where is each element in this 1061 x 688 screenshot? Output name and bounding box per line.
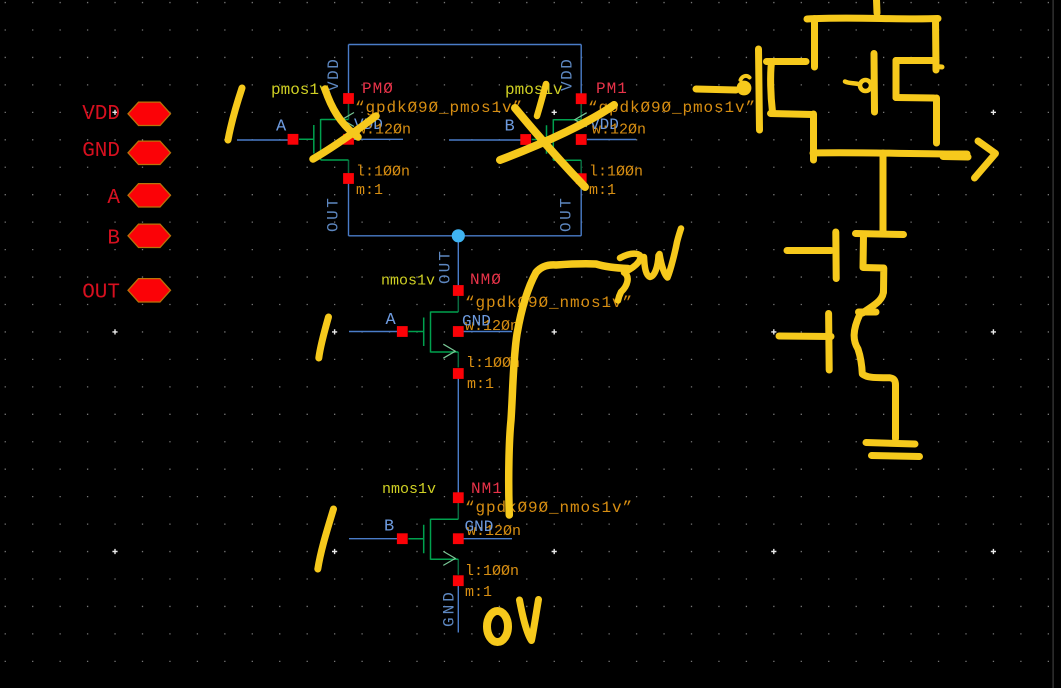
- wire OUT to NM0 drain: [457, 236, 459, 286]
- wire PM0 bulk stub: [354, 138, 403, 140]
- pin hexagon A: [128, 184, 171, 207]
- annotation sketch series kink bar: [859, 309, 877, 316]
- annotation sketch left PMOS drain down-wire: [810, 114, 817, 160]
- annotation sketch right PMOS channel: [893, 61, 900, 98]
- annotation scribble 3V vee: [660, 229, 682, 278]
- pin hexagon OUT: [128, 279, 171, 302]
- svg-text:A: A: [107, 187, 120, 210]
- PM1 source arrow: [575, 113, 587, 127]
- svg-text:m:1: m:1: [465, 584, 492, 601]
- pin hexagon B: [128, 224, 171, 247]
- svg-text:OUT: OUT: [325, 196, 343, 232]
- annotation sketch bubble hook: [741, 76, 750, 80]
- svg-text:“gpdkØ9Ø_nmos1v”: “gpdkØ9Ø_nmos1v”: [465, 294, 633, 312]
- svg-text:l:1ØØn: l:1ØØn: [589, 164, 643, 181]
- svg-text:nmos1v: nmos1v: [382, 481, 436, 498]
- wire NM0 source to NM1 drain: [457, 378, 459, 494]
- annotation sketch top NMOS gate bar: [832, 232, 839, 279]
- annotation sketch output node down-wire: [880, 153, 887, 233]
- wire NM1 source to GND: [457, 585, 459, 633]
- svg-text:PMØ: PMØ: [362, 80, 394, 98]
- sketch right PMOS gate bubble: [860, 80, 871, 91]
- svg-text:B: B: [384, 518, 394, 537]
- wire net A to NM0 gate: [349, 331, 397, 333]
- transistor NM0 nmos symbol: [457, 291, 459, 368]
- annotation sketch nub at right corner: [936, 64, 942, 70]
- svg-text:OUT: OUT: [82, 282, 120, 305]
- annotation sketch bottom NMOS gate bar: [825, 314, 833, 371]
- svg-text:l:1ØØn: l:1ØØn: [465, 563, 519, 580]
- NM0 pin squares: [453, 285, 464, 296]
- svg-text:w:12Øn: w:12Øn: [592, 122, 646, 139]
- wire PM0 drain: [348, 184, 350, 236]
- canvas edge line: [1053, 0, 1054, 688]
- annotation sketch right PMOS drain down-wire: [933, 98, 940, 143]
- annotation sketch left PMOS drain lead: [771, 114, 813, 115]
- PM0 pin squares: [343, 93, 354, 104]
- svg-text:OUT: OUT: [437, 249, 455, 284]
- svg-text:m:1: m:1: [467, 376, 494, 393]
- svg-text:m:1: m:1: [589, 182, 616, 199]
- svg-text:VDD: VDD: [82, 103, 120, 126]
- svg-text:NM1: NM1: [471, 480, 503, 498]
- PM0 source arrow: [342, 113, 354, 127]
- annotation sketch output arrowhead: [975, 141, 996, 178]
- annotation sketch right PMOS gate bar: [871, 54, 879, 113]
- annotation sketch left PMOS source lead: [767, 58, 807, 65]
- svg-text:NMØ: NMØ: [470, 271, 502, 289]
- annotation sketch VDD rail: [807, 15, 938, 23]
- svg-text:VDD: VDD: [325, 58, 343, 91]
- annotation sketch output rail: [813, 153, 967, 154]
- annotation sketch NMOS series link: [863, 290, 884, 313]
- transistor NM1 nmos symbol: [457, 498, 459, 575]
- svg-text:GND: GND: [462, 313, 491, 331]
- annotation slash mark over NM1 input: [318, 509, 334, 569]
- wire net B to PM1 gate: [449, 139, 521, 141]
- wire PM0 source: [348, 45, 350, 95]
- junction node OUT: [452, 229, 465, 242]
- annotation sketch left PMOS channel: [771, 62, 773, 112]
- svg-text:“gpdkØ9Ø_nmos1v”: “gpdkØ9Ø_nmos1v”: [465, 499, 633, 517]
- svg-text:B: B: [505, 118, 515, 137]
- NM1 pin squares: [453, 492, 464, 503]
- svg-text:pmos1v: pmos1v: [271, 81, 329, 99]
- annotation slash mark over NM0 input: [319, 317, 329, 358]
- annotation slash over pmos1v label (PM1): [537, 84, 546, 116]
- annotation slash mark over PM0 input: [228, 88, 242, 140]
- annotation long curve annotation: [509, 264, 628, 515]
- sketch input bubble left PMOS: [737, 81, 752, 96]
- wire NM1 bulk stub: [463, 538, 512, 540]
- annotation sketch output rail overdraw: [943, 153, 968, 161]
- annotation 0V zero: [487, 611, 508, 642]
- annotation sketch top NMOS channel path: [863, 235, 884, 292]
- annotation sketch ground bar 2: [872, 456, 920, 457]
- annotation sketch VDD stub: [873, 0, 881, 13]
- wire VDD rail (top): [349, 44, 582, 46]
- svg-text:A: A: [386, 311, 397, 330]
- annotation scribble 3V three: [618, 254, 641, 301]
- annotation X mark over PM1 arm 2: [515, 108, 585, 187]
- svg-text:GND: GND: [82, 140, 120, 163]
- annotation sketch bottom NMOS gate lead: [779, 333, 831, 341]
- svg-text:GND: GND: [465, 518, 494, 536]
- svg-text:l:1ØØn: l:1ØØn: [356, 164, 410, 181]
- annotation sketch top NMOS drain bar: [856, 234, 904, 235]
- svg-text:VDD: VDD: [559, 58, 577, 91]
- wire NM0 bulk stub: [463, 331, 512, 333]
- svg-text:B: B: [107, 228, 120, 251]
- annotation X mark over PM0 arm 1: [325, 89, 358, 137]
- wire net A to PM0 gate: [237, 139, 289, 141]
- wire OUT rail (bottom): [349, 235, 582, 237]
- wire PM1 bulk stub: [587, 139, 636, 141]
- svg-text:pmos1v: pmos1v: [505, 81, 563, 99]
- svg-text:A: A: [276, 118, 287, 137]
- annotation sketch right PMOS source up-wire: [932, 19, 940, 70]
- annotation sketch left PMOS gate bar: [759, 49, 760, 130]
- wire PM1 drain: [580, 184, 582, 236]
- annotation scribble 3V u: [644, 256, 659, 278]
- annotation X mark over PM1 arm 1: [500, 105, 614, 160]
- annotation sketch left PMOS source up-wire: [811, 19, 818, 67]
- annotation sketch right PMOS drain lead: [896, 94, 934, 102]
- NM1 source arrow: [443, 551, 455, 565]
- major grid markers: [112, 110, 996, 554]
- transistor PM0 pmos symbol: [348, 103, 350, 175]
- svg-text:nmos1v: nmos1v: [381, 273, 435, 290]
- annotation sketch right PMOS gate squiggle: [845, 82, 860, 85]
- annotation sketch ground bar 1: [866, 443, 915, 445]
- annotation sketch input wire left PMOS: [696, 89, 736, 90]
- wire PM1 source: [580, 45, 582, 95]
- svg-text:m:1: m:1: [356, 182, 383, 199]
- PM1 pin squares: [576, 93, 587, 104]
- annotation sketch right PMOS source lead: [896, 57, 936, 64]
- svg-text:“gpdkØ9Ø_pmos1v”: “gpdkØ9Ø_pmos1v”: [355, 99, 523, 117]
- pin hexagon GND: [128, 141, 171, 164]
- svg-text:PM1: PM1: [596, 80, 628, 98]
- svg-text:OUT: OUT: [558, 196, 576, 232]
- transistor PM1 pmos symbol: [580, 104, 582, 176]
- wire net B to NM1 gate: [349, 538, 397, 540]
- svg-text:GND: GND: [441, 589, 459, 627]
- annotation sketch bottom NMOS channel and source wire: [854, 314, 895, 439]
- annotation X mark over PM0 arm 2: [313, 116, 376, 159]
- NM0 source arrow: [443, 344, 455, 358]
- annotation annotation 0V vee: [520, 600, 539, 641]
- pin hexagon VDD: [128, 102, 171, 125]
- annotation sketch top NMOS gate lead: [787, 247, 831, 254]
